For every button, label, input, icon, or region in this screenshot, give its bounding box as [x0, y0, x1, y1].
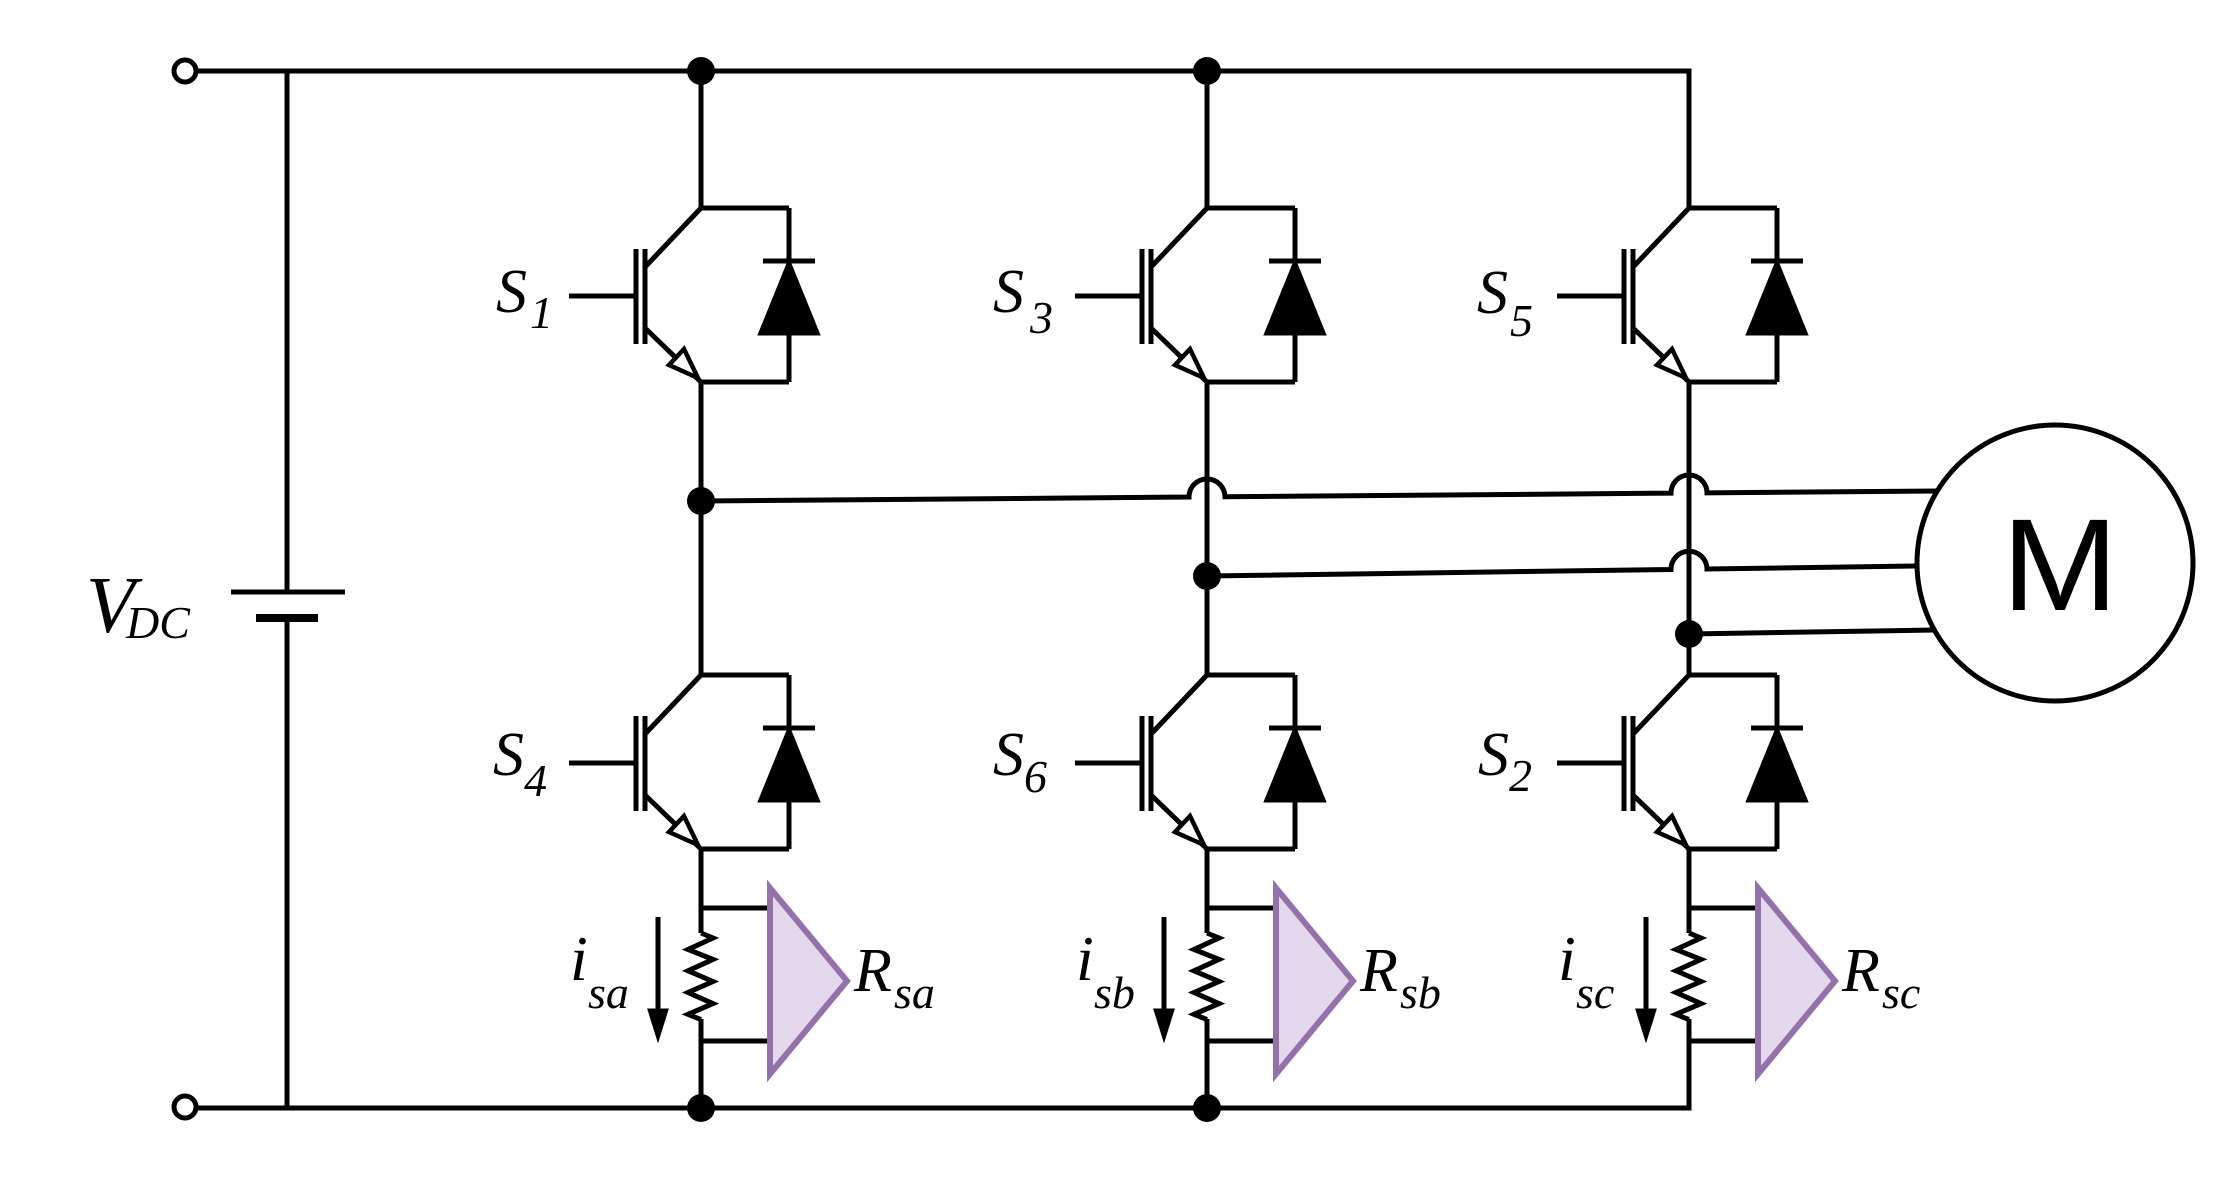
- wire sense tap bottom (R_sc): [1689, 1039, 1758, 1044]
- wire sense tap bottom (R_sa): [701, 1039, 770, 1044]
- wire leg C middle (S5 emitter to S2 collector): [1687, 382, 1692, 675]
- junction dot bottom rail / leg A: [687, 1094, 715, 1122]
- svg-text:1: 1: [530, 287, 553, 338]
- svg-text:S: S: [1477, 259, 1508, 327]
- svg-text:4: 4: [524, 755, 547, 806]
- label S6: [993, 721, 1047, 802]
- wire sense tap bottom (R_sb): [1207, 1039, 1276, 1044]
- svg-text:S: S: [1478, 721, 1509, 789]
- resistor R_sc (shunt): [1676, 933, 1701, 1020]
- wire leg B middle (S3 emitter to S6 collector): [1205, 382, 1210, 675]
- junction dot top rail / leg A: [687, 57, 715, 85]
- svg-text:sa: sa: [588, 967, 629, 1018]
- svg-text:sb: sb: [1094, 967, 1135, 1018]
- transistor S4 (IGBT): [569, 675, 789, 849]
- label S3: [993, 258, 1053, 343]
- wire leg B emitter to shunt: [1205, 849, 1210, 933]
- label R_sc: [1841, 937, 1920, 1018]
- svg-text:R: R: [853, 937, 892, 1005]
- battery V_DC positive plate: [231, 590, 345, 595]
- wire leg B upper (rail to S3): [1205, 71, 1210, 208]
- diode D5 (antiparallel of S5): [1749, 208, 1805, 382]
- transistor S1 (IGBT): [569, 208, 789, 382]
- label S4: [493, 721, 547, 806]
- junction dot phase b tap: [1193, 562, 1221, 590]
- label M: [2002, 491, 2119, 638]
- wire sense tap top (R_sc): [1689, 906, 1758, 911]
- wire battery negative lead: [285, 618, 290, 1108]
- svg-text:5: 5: [1510, 295, 1533, 346]
- wire leg C emitter to shunt: [1687, 849, 1692, 933]
- svg-text:i: i: [570, 923, 588, 994]
- transistor S3 (IGBT): [1075, 208, 1295, 382]
- label i_sc: [1558, 923, 1614, 1018]
- battery V_DC negative plate: [256, 614, 318, 622]
- arrow current direction i_sc: [1639, 917, 1654, 1035]
- svg-text:3: 3: [1029, 292, 1053, 343]
- wire leg A emitter to shunt: [699, 849, 704, 933]
- wire phase a (leg A to motor, hops over legs B and C): [701, 475, 1937, 501]
- label i_sa: [570, 923, 629, 1018]
- svg-text:6: 6: [1024, 751, 1047, 802]
- svg-text:S: S: [993, 258, 1024, 326]
- junction dot phase c tap: [1675, 620, 1703, 648]
- label S5: [1477, 259, 1533, 346]
- arrow current direction i_sa: [651, 917, 666, 1035]
- label S1: [496, 258, 553, 338]
- svg-text:sb: sb: [1400, 967, 1441, 1018]
- diode D3 (antiparallel of S3): [1267, 208, 1323, 382]
- svg-text:sc: sc: [1576, 967, 1614, 1018]
- diode D6 (antiparallel of S6): [1267, 675, 1323, 849]
- svg-text:sa: sa: [894, 967, 935, 1018]
- wire battery positive lead: [285, 71, 290, 592]
- resistor R_sb (shunt): [1194, 933, 1219, 1020]
- wire phase c (leg C to motor): [1689, 630, 1934, 634]
- wire shunt to bottom rail: [1205, 1019, 1210, 1108]
- wire sense tap top (R_sb): [1207, 906, 1276, 911]
- svg-text:M: M: [2002, 491, 2119, 638]
- label V_DC: [86, 562, 191, 650]
- svg-text:S: S: [993, 721, 1024, 789]
- wire leg A middle (S1 emitter to S4 collector): [699, 382, 704, 675]
- current sense amplifier (R_sa): [770, 888, 847, 1074]
- diode D4 (antiparallel of S4): [761, 675, 817, 849]
- wire leg A upper (rail to S1): [699, 71, 704, 208]
- current sense amplifier (R_sc): [1758, 888, 1835, 1074]
- transistor S6 (IGBT): [1075, 675, 1295, 849]
- svg-text:R: R: [1359, 937, 1398, 1005]
- diode D1 (antiparallel of S1): [761, 208, 817, 382]
- wire bottom rail (DC-): [196, 1041, 1689, 1108]
- transistor S5 (IGBT): [1557, 208, 1777, 382]
- svg-text:R: R: [1841, 937, 1880, 1005]
- wire sense tap top (R_sa): [701, 906, 770, 911]
- arrow current direction i_sb: [1157, 917, 1172, 1035]
- label R_sb: [1359, 937, 1441, 1018]
- resistor R_sa (shunt): [688, 933, 713, 1020]
- svg-text:sc: sc: [1882, 967, 1920, 1018]
- svg-text:2: 2: [1509, 750, 1532, 801]
- wire shunt to bottom rail: [1687, 1019, 1692, 1108]
- svg-text:i: i: [1558, 923, 1576, 994]
- terminal DC+ (open circle): [174, 60, 196, 82]
- current sense amplifier (R_sb): [1276, 888, 1353, 1074]
- svg-text:i: i: [1076, 923, 1094, 994]
- diode D2 (antiparallel of S2): [1749, 675, 1805, 849]
- transistor S2 (IGBT): [1557, 675, 1777, 849]
- label S2: [1478, 721, 1532, 801]
- junction dot top rail / leg B: [1193, 57, 1221, 85]
- wire phase b (leg B to motor, hops over leg C): [1207, 551, 1917, 576]
- svg-text:S: S: [496, 258, 527, 326]
- label i_sb: [1076, 923, 1135, 1018]
- wire shunt to bottom rail: [699, 1019, 704, 1108]
- motor M (circle): [1917, 425, 2193, 701]
- wire top rail (DC+): [196, 71, 1689, 208]
- junction dot bottom rail / leg B: [1193, 1094, 1221, 1122]
- svg-text:S: S: [493, 721, 524, 789]
- label R_sa: [853, 937, 935, 1018]
- svg-text:DC: DC: [125, 597, 191, 648]
- junction dot phase a tap: [687, 487, 715, 515]
- terminal DC- (open circle): [174, 1096, 196, 1118]
